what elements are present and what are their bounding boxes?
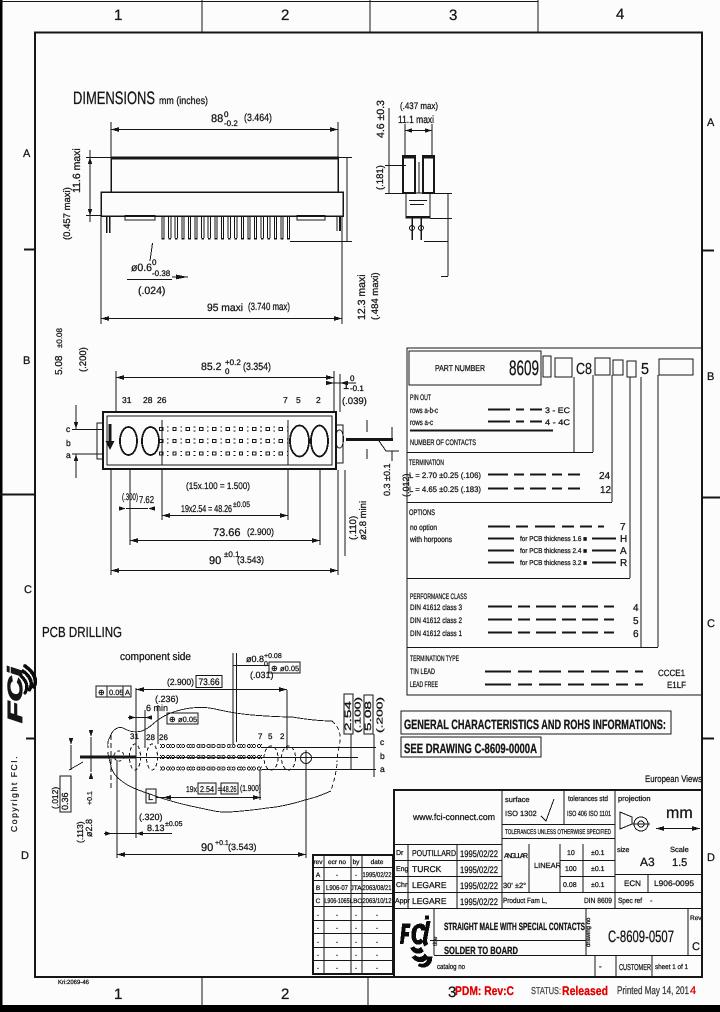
svg-text:26: 26	[159, 733, 168, 742]
svg-text:ø0.8: ø0.8	[246, 654, 264, 664]
svg-text:Rev.: Rev.	[690, 915, 703, 922]
svg-text:A: A	[316, 872, 321, 879]
svg-text:catalog no: catalog no	[437, 962, 465, 971]
svg-text:1.5: 1.5	[672, 857, 687, 869]
svg-text:3 - EC: 3 - EC	[545, 406, 570, 415]
svg-text:L = 4.65 ±0.25 (.183): L = 4.65 ±0.25 (.183)	[409, 485, 481, 494]
svg-text:1995/02/22: 1995/02/22	[460, 849, 498, 860]
svg-text:(.012): (.012)	[50, 787, 60, 809]
svg-text:(15x.100 = 1.500): (15x.100 = 1.500)	[186, 481, 250, 492]
svg-text:L906-0095: L906-0095	[654, 879, 695, 888]
svg-text:DIN 41612 class 1: DIN 41612 class 1	[410, 629, 462, 638]
svg-text:4: 4	[633, 603, 639, 614]
svg-text:0: 0	[350, 374, 355, 383]
svg-text:(.320): (.320)	[139, 812, 163, 822]
svg-text:2: 2	[281, 7, 289, 24]
svg-text:-: -	[355, 912, 357, 919]
svg-text:(.437 max): (.437 max)	[400, 101, 438, 112]
svg-text:(.181): (.181)	[375, 165, 386, 190]
svg-text:2063/08/21: 2063/08/21	[363, 884, 392, 892]
svg-text:(3.543): (3.543)	[237, 555, 264, 566]
svg-text:rows a-c: rows a-c	[410, 418, 433, 427]
svg-text:PIN OUT: PIN OUT	[410, 393, 431, 402]
svg-text:(.039): (.039)	[342, 396, 367, 407]
svg-text:95 maxi: 95 maxi	[207, 302, 243, 314]
svg-text:surface: surface	[505, 795, 530, 804]
svg-text:(2.900): (2.900)	[247, 527, 274, 538]
svg-text:rows a-b-c: rows a-b-c	[410, 406, 438, 415]
svg-text:1: 1	[343, 380, 349, 392]
svg-text:D: D	[21, 850, 29, 862]
svg-text:0: 0	[264, 661, 268, 668]
svg-text:(3.354): (3.354)	[243, 361, 271, 373]
svg-text:5: 5	[633, 616, 639, 627]
svg-text:ecr no: ecr no	[328, 859, 346, 866]
svg-text:48.26: 48.26	[223, 784, 237, 794]
svg-text:(.110): (.110)	[348, 516, 359, 540]
svg-text:24: 24	[599, 471, 611, 482]
svg-text:6 min: 6 min	[146, 703, 168, 713]
svg-text:Printed May 14, 201: Printed May 14, 201	[617, 985, 689, 997]
svg-text:L906-07: L906-07	[326, 885, 348, 892]
svg-text:-: -	[336, 925, 338, 932]
svg-text:c: c	[66, 424, 71, 434]
svg-text:JTA: JTA	[350, 885, 362, 892]
svg-text:±0.1: ±0.1	[591, 850, 605, 857]
svg-text:12: 12	[600, 485, 612, 496]
svg-text:0: 0	[152, 258, 157, 267]
svg-text:A: A	[23, 148, 31, 160]
svg-text:for PCB thickness 1.6 ■: for PCB thickness 1.6 ■	[520, 535, 587, 543]
svg-text:H: H	[620, 534, 627, 545]
svg-text:1995/02/22: 1995/02/22	[460, 897, 498, 908]
svg-text:±0.1: ±0.1	[591, 866, 605, 873]
svg-text:2: 2	[281, 986, 289, 1003]
svg-text:PART NUMBER: PART NUMBER	[435, 363, 485, 373]
svg-text:4 - 4C: 4 - 4C	[545, 418, 570, 427]
svg-text:±0.08: ±0.08	[55, 327, 64, 348]
svg-text:11.6 maxi: 11.6 maxi	[71, 148, 83, 193]
svg-text:Copyright FCI.: Copyright FCI.	[9, 755, 19, 832]
svg-text:E1LF: E1LF	[667, 680, 686, 690]
svg-text:TOLERANCES UNLESS OTHERWISE SP: TOLERANCES UNLESS OTHERWISE SPECIFIED	[505, 829, 611, 836]
svg-text:b: b	[380, 751, 385, 761]
svg-text:-: -	[355, 925, 357, 932]
svg-text:(.484 maxi): (.484 maxi)	[370, 272, 381, 320]
svg-text:tolerances std: tolerances std	[568, 794, 608, 803]
svg-text:31: 31	[130, 732, 139, 741]
svg-text:component side: component side	[120, 651, 191, 663]
svg-text:-: -	[355, 872, 357, 879]
svg-text:-0.38: -0.38	[152, 269, 171, 278]
svg-text:3: 3	[449, 7, 457, 24]
svg-text:A: A	[620, 546, 627, 557]
svg-text:-: -	[317, 965, 319, 972]
svg-text:⊕: ⊕	[271, 664, 278, 673]
svg-text:mm: mm	[666, 805, 693, 822]
svg-text:90: 90	[201, 842, 213, 854]
svg-text:DIN 41612 class 2: DIN 41612 class 2	[410, 616, 462, 625]
svg-text:⊕: ⊕	[98, 688, 105, 697]
svg-text:2: 2	[316, 395, 321, 405]
svg-text:LEGARE: LEGARE	[412, 896, 447, 906]
svg-text:0.3 ±0.1: 0.3 ±0.1	[382, 464, 392, 496]
svg-text:PERFORMANCE CLASS: PERFORMANCE CLASS	[410, 592, 467, 601]
svg-text:GENERAL CHARACTERISTICS AND RO: GENERAL CHARACTERISTICS AND ROHS INFORMA…	[404, 717, 666, 732]
svg-text:7: 7	[258, 732, 263, 741]
svg-text:LBO: LBO	[349, 898, 362, 905]
svg-text:28: 28	[143, 395, 153, 405]
svg-text:±0.05: ±0.05	[165, 821, 183, 828]
svg-text:7.62: 7.62	[139, 495, 154, 506]
svg-text:ø0.6: ø0.6	[131, 262, 152, 274]
svg-text:ECN: ECN	[624, 879, 641, 888]
svg-text:0.36: 0.36	[60, 792, 70, 810]
svg-text:1995/02/22: 1995/02/22	[460, 881, 498, 892]
svg-text:10: 10	[567, 850, 575, 857]
svg-text:DIN 41612 class 3: DIN 41612 class 3	[410, 603, 462, 612]
svg-text:-: -	[317, 912, 319, 919]
svg-text:5: 5	[641, 361, 649, 378]
svg-text:R: R	[620, 558, 627, 569]
svg-text:c: c	[380, 737, 385, 747]
svg-text:ø0.05: ø0.05	[280, 664, 299, 673]
svg-text:-: -	[355, 965, 357, 972]
svg-text:Released: Released	[562, 984, 608, 998]
svg-text:12.3 maxi: 12.3 maxi	[356, 274, 368, 320]
svg-text:TERMINATION TYPE: TERMINATION TYPE	[410, 654, 459, 663]
svg-text:11.1 maxi: 11.1 maxi	[398, 114, 434, 126]
svg-text:C8: C8	[576, 361, 592, 378]
svg-text:+0.08: +0.08	[264, 653, 282, 660]
svg-text:-: -	[376, 965, 378, 972]
svg-text:TERMINATION: TERMINATION	[409, 458, 444, 467]
svg-text:sheet 1 of 1: sheet 1 of 1	[655, 963, 688, 971]
svg-text:Spec ref: Spec ref	[618, 896, 643, 905]
svg-text:A: A	[125, 688, 130, 697]
svg-text:0: 0	[224, 110, 229, 119]
svg-text:PCB DRILLING: PCB DRILLING	[42, 625, 122, 641]
svg-text:STATUS:: STATUS:	[531, 986, 561, 997]
svg-text:ø2.8 mini: ø2.8 mini	[358, 501, 369, 540]
svg-text:2: 2	[280, 732, 285, 741]
svg-text:C: C	[707, 618, 715, 630]
svg-text:-0.1: -0.1	[350, 384, 364, 393]
svg-text:NUMBER OF CONTACTS: NUMBER OF CONTACTS	[410, 438, 476, 447]
svg-text:POUTILLARD: POUTILLARD	[412, 848, 456, 858]
svg-text:(1.900): (1.900)	[240, 783, 261, 793]
svg-text:26: 26	[157, 395, 167, 405]
svg-text:Product Fam L,: Product Fam L,	[503, 896, 547, 905]
svg-text:7: 7	[620, 522, 626, 533]
svg-text:LEAD FREE: LEAD FREE	[410, 680, 438, 689]
svg-text:PDM: Rev:C: PDM: Rev:C	[455, 984, 514, 998]
svg-text:±0.1: ±0.1	[591, 882, 605, 889]
svg-text:0: 0	[225, 367, 230, 376]
svg-text:-: -	[336, 965, 338, 972]
svg-text:by: by	[353, 859, 361, 866]
svg-text:(0.457 maxi): (0.457 maxi)	[62, 187, 73, 240]
svg-text:TIN LEAD: TIN LEAD	[410, 667, 435, 676]
svg-text:1: 1	[114, 986, 122, 1003]
svg-text:7: 7	[283, 395, 288, 405]
svg-text:0.08: 0.08	[563, 882, 577, 889]
svg-text:B: B	[316, 885, 320, 892]
svg-text:5: 5	[268, 732, 273, 741]
svg-text:1995/02/22: 1995/02/22	[363, 871, 392, 879]
svg-text:-: -	[336, 939, 338, 946]
svg-text:-: -	[317, 939, 319, 946]
svg-text:-: -	[376, 925, 378, 932]
svg-text:Appr: Appr	[395, 898, 410, 905]
svg-text:size: size	[617, 846, 630, 854]
svg-text:4: 4	[690, 985, 696, 997]
svg-text:-: -	[376, 952, 378, 959]
svg-text:73.66: 73.66	[213, 527, 241, 539]
svg-text:Kri:2069-46: Kri:2069-46	[58, 979, 90, 986]
svg-text:Scale: Scale	[670, 845, 689, 854]
svg-text:title: title	[432, 936, 439, 946]
svg-text:CCCE1: CCCE1	[658, 668, 685, 678]
svg-text:0.05: 0.05	[109, 688, 124, 697]
svg-text:-: -	[336, 872, 338, 879]
svg-text:A3: A3	[640, 855, 655, 869]
svg-text:for PCB thickness 3.2 ■: for PCB thickness 3.2 ■	[520, 559, 587, 567]
svg-text:ISO 1302: ISO 1302	[505, 809, 537, 818]
svg-text:rev: rev	[313, 859, 323, 866]
svg-text:ø0.05: ø0.05	[178, 715, 197, 724]
svg-text:C-8609-0507: C-8609-0507	[608, 928, 674, 946]
svg-text:8.13: 8.13	[147, 823, 165, 833]
svg-text:-0.2: -0.2	[224, 119, 238, 128]
svg-text:date: date	[371, 859, 384, 866]
svg-text:(2.900): (2.900)	[167, 677, 194, 687]
svg-text:-: -	[317, 952, 319, 959]
svg-text:-: -	[599, 962, 602, 971]
svg-text:5.08: 5.08	[54, 355, 65, 375]
svg-text:(3.740 max): (3.740 max)	[248, 301, 290, 313]
svg-text:European Views: European Views	[645, 774, 702, 785]
svg-text:Chr: Chr	[396, 881, 408, 889]
svg-text:DIMENSIONS: DIMENSIONS	[73, 88, 155, 108]
svg-text:(.024): (.024)	[138, 285, 165, 297]
svg-text:CUSTOMER: CUSTOMER	[619, 962, 651, 972]
svg-text:(.200): (.200)	[78, 347, 89, 372]
svg-text:28: 28	[146, 733, 155, 742]
svg-text:-: -	[650, 896, 653, 905]
svg-text:-: -	[355, 952, 357, 959]
svg-text:ø2.8: ø2.8	[84, 819, 94, 837]
svg-text:ISO 406 ISO 1101: ISO 406 ISO 1101	[567, 809, 611, 818]
svg-text:4.6 ±0.3: 4.6 ±0.3	[375, 100, 387, 138]
svg-text:2063/10/12: 2063/10/12	[363, 897, 392, 905]
svg-text:ANGULAR: ANGULAR	[504, 853, 528, 860]
svg-text:73.66: 73.66	[199, 677, 220, 688]
svg-text:SOLDER TO BOARD: SOLDER TO BOARD	[444, 945, 518, 957]
svg-text:L = 2.70 ±0.25 (.106): L = 2.70 ±0.25 (.106)	[409, 471, 481, 480]
svg-text:4: 4	[616, 6, 624, 23]
svg-text:(.100): (.100)	[353, 697, 363, 733]
svg-text:19x: 19x	[186, 784, 198, 794]
svg-text:+0.1: +0.1	[87, 791, 94, 805]
svg-text:C: C	[316, 898, 321, 905]
svg-text:6: 6	[633, 629, 639, 640]
svg-text:A: A	[707, 117, 715, 129]
svg-text:⊕: ⊕	[169, 715, 176, 724]
svg-text:85.2: 85.2	[201, 361, 222, 373]
svg-text:1: 1	[114, 7, 122, 24]
svg-text:-: -	[355, 939, 357, 946]
svg-text:-: -	[376, 912, 378, 919]
svg-text:www.fci-connect.com: www.fci-connect.com	[412, 812, 495, 822]
svg-text:Eng: Eng	[396, 866, 409, 873]
svg-text:for PCB thickness 2.4 ■: for PCB thickness 2.4 ■	[520, 547, 587, 555]
svg-text:-: -	[336, 952, 338, 959]
svg-text:(.300): (.300)	[122, 492, 138, 503]
svg-text:OPTIONS: OPTIONS	[409, 508, 435, 517]
svg-text:b: b	[66, 438, 71, 448]
svg-text:-: -	[336, 912, 338, 919]
svg-text:LEGARE: LEGARE	[412, 880, 447, 890]
svg-text:+0.2: +0.2	[225, 358, 241, 367]
svg-text:(.200): (.200)	[375, 697, 385, 733]
svg-text:31: 31	[122, 395, 132, 405]
svg-text:DIN 8609: DIN 8609	[584, 896, 612, 905]
svg-text:a: a	[380, 764, 385, 774]
svg-text:with horpoons: with horpoons	[409, 535, 452, 544]
svg-text:TURCK: TURCK	[412, 864, 442, 874]
svg-text:+0.1: +0.1	[215, 840, 229, 847]
svg-text:C: C	[24, 584, 32, 596]
svg-text:(3.464): (3.464)	[244, 112, 272, 124]
svg-text:no option: no option	[410, 523, 437, 532]
svg-text:±0.05: ±0.05	[233, 500, 250, 509]
svg-text:drawing no: drawing no	[585, 917, 592, 947]
svg-text:5: 5	[296, 395, 301, 405]
svg-text:100: 100	[565, 866, 577, 873]
svg-text:19x2.54 = 48.26: 19x2.54 = 48.26	[181, 504, 232, 515]
svg-text:Dr: Dr	[396, 850, 404, 857]
svg-text:2.54: 2.54	[200, 784, 214, 794]
svg-text:90: 90	[209, 555, 221, 567]
svg-text:D: D	[707, 852, 715, 864]
svg-text:a: a	[66, 450, 71, 460]
svg-text:30' ±2°: 30' ±2°	[503, 881, 526, 890]
svg-text:LINEAR: LINEAR	[534, 861, 562, 870]
svg-text:SEE DRAWING C-8609-0000A: SEE DRAWING C-8609-0000A	[404, 741, 537, 756]
svg-text:(3.543): (3.543)	[228, 842, 257, 852]
svg-text:C: C	[692, 941, 700, 953]
svg-text:B: B	[707, 371, 714, 383]
svg-text:B: B	[23, 355, 30, 367]
svg-text:8609: 8609	[509, 357, 539, 380]
svg-text:mm (inches): mm (inches)	[159, 95, 208, 107]
svg-text:projection: projection	[618, 794, 651, 803]
svg-text:1995/02/22: 1995/02/22	[460, 865, 498, 876]
svg-text:-: -	[376, 939, 378, 946]
svg-text:88: 88	[211, 113, 223, 125]
svg-text:(.031): (.031)	[250, 670, 274, 680]
svg-text:STRAIGHT MALE WITH SPECIAL CO: STRAIGHT MALE WITH SPECIAL CONTACTS	[444, 921, 585, 933]
svg-text:-: -	[317, 925, 319, 932]
svg-text:L906-1065: L906-1065	[325, 898, 350, 905]
